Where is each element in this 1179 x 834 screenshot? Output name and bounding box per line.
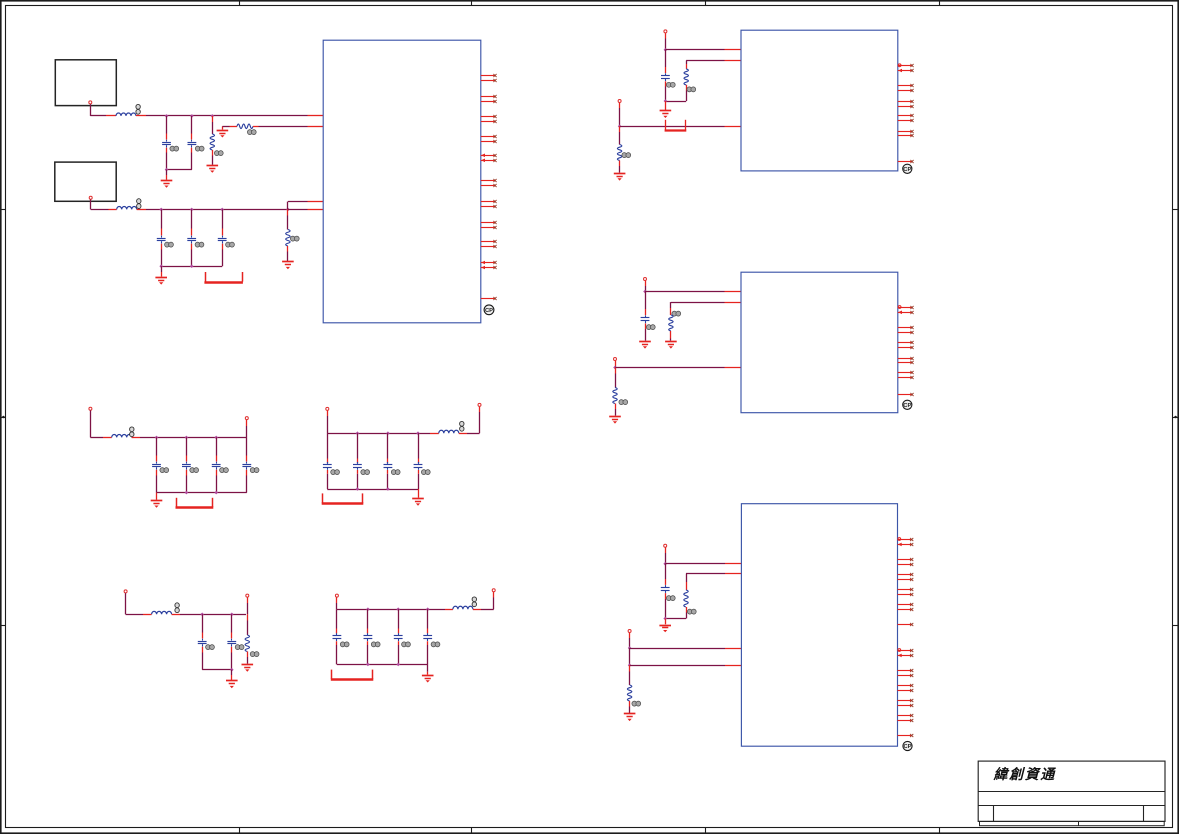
wire R5 down to junction — [665, 91, 686, 102]
port P10 — [492, 589, 495, 592]
U2 right single pin — [898, 160, 914, 163]
resistor R10 — [627, 665, 631, 713]
wire bank-B bottom rail — [327, 489, 418, 491]
wire to U4 pin4 — [630, 665, 725, 667]
svg-text:CP: CP — [903, 403, 911, 409]
inductor L5 — [152, 611, 172, 614]
designator circle U4 — [903, 741, 912, 750]
U2 right pin pair 2 — [898, 84, 914, 92]
wire P7 to L5 — [126, 593, 152, 614]
wire to R2 — [222, 126, 237, 128]
ground — [151, 493, 163, 508]
inductor L6 — [453, 606, 473, 609]
IC U4 — [741, 504, 897, 747]
wire P5 drop — [327, 411, 329, 434]
label C17 — [371, 642, 380, 647]
title block row line 1 — [978, 791, 1165, 793]
capacitor C5 — [218, 209, 227, 266]
wire P3 to L3 — [90, 410, 111, 437]
junction — [366, 663, 370, 667]
port P9 — [335, 594, 338, 597]
U4 right pin pair 7 — [898, 669, 914, 677]
ground — [422, 664, 434, 682]
svg-text:CP: CP — [485, 308, 493, 314]
pin stub U4 pin3 — [725, 648, 741, 650]
ground — [161, 170, 173, 188]
resistor R7 — [669, 315, 673, 341]
wire rail to U3 pin3 — [615, 367, 725, 369]
U3 right pin pair 3 — [898, 341, 914, 349]
pin stub U2 pin3 — [725, 126, 742, 128]
wire L4 to P6 — [459, 407, 480, 434]
pin of J1 — [89, 101, 92, 104]
U2 right pin pair 4 — [898, 114, 914, 122]
pin stub U3 pin3 — [725, 367, 742, 369]
label C8 — [220, 468, 229, 473]
inductor L2 — [117, 206, 137, 209]
label R4 — [250, 652, 259, 657]
capacitor C8 — [212, 437, 221, 492]
U1 right pin pair 6 — [481, 179, 497, 187]
wire P9 drop — [336, 597, 338, 609]
wire jog up to U1 pin3 — [288, 202, 308, 210]
capacitor C21 — [641, 292, 650, 341]
U2 right pin pair 3 — [898, 100, 914, 108]
capacitor C18 — [394, 609, 403, 664]
U4 right pin pair 10 — [898, 714, 914, 722]
U1 right pin pair 7 — [481, 200, 497, 208]
junction — [230, 668, 234, 672]
junction — [200, 613, 204, 617]
title block row line 2 — [978, 805, 1165, 807]
svg-text:緯創資通: 緯創資通 — [993, 766, 1057, 783]
port P13 — [644, 278, 647, 281]
junction — [190, 264, 194, 268]
port P12 — [618, 100, 621, 103]
junction — [356, 431, 360, 435]
designator circle U1 — [484, 305, 494, 315]
wire L6 to P10 — [473, 592, 494, 610]
wire to U3 pin1 — [645, 291, 725, 293]
junction — [663, 617, 667, 621]
label C4 — [195, 242, 204, 247]
junction — [613, 366, 617, 370]
connector J2 — [55, 162, 116, 201]
capacitor C22 — [661, 564, 670, 619]
junction — [185, 436, 189, 440]
title block frame — [978, 761, 1165, 821]
U3 right pin pair 2 — [898, 326, 914, 334]
U1 right pin pair 4 — [481, 135, 497, 143]
capacitor C14 — [198, 614, 207, 669]
label C6 — [160, 468, 169, 473]
capacitor C17 — [364, 609, 373, 664]
label C14 — [206, 645, 215, 650]
junction — [386, 487, 390, 491]
junction — [159, 264, 163, 268]
ground — [226, 670, 238, 689]
capacitor C6 — [152, 437, 161, 492]
capacitor C3 — [157, 209, 166, 266]
capacitor C10 — [323, 433, 332, 489]
wire J2 to L2 — [91, 200, 117, 210]
net-tie bracket — [322, 493, 364, 503]
pin stub to U1 pin4 — [308, 209, 324, 211]
capacitor C20 — [661, 50, 670, 101]
label C3 — [165, 242, 174, 247]
ground — [242, 665, 254, 672]
capacitor C4 — [187, 209, 196, 266]
svg-text:CP: CP — [903, 744, 911, 750]
U4 right pin pair 4 — [898, 588, 914, 596]
port P11 — [664, 30, 667, 33]
label C5 — [226, 242, 235, 247]
U3 right single pin — [898, 393, 914, 396]
wire bank-C bottom rail — [202, 669, 232, 671]
wire cap bottom rail — [161, 266, 222, 268]
port P7 — [124, 590, 127, 593]
capacitor C1 — [162, 116, 171, 170]
U3 right pin pair 4 — [898, 357, 914, 364]
capacitor C2 — [188, 116, 197, 170]
label L4 — [460, 421, 464, 431]
pin stub to U1 pin2 — [308, 126, 324, 128]
net-tie bracket — [176, 498, 214, 508]
wire bank-A rail — [132, 437, 247, 439]
U1 right pin pair 3 — [481, 115, 497, 123]
U1 right single pin — [481, 297, 497, 300]
capacitor C7 — [182, 437, 191, 492]
U4 right pin pair 1 — [898, 538, 914, 547]
label R6 — [622, 153, 631, 158]
junction — [190, 208, 194, 212]
ground — [217, 126, 229, 137]
inductor L1 — [116, 113, 136, 116]
wire P11 drop — [665, 33, 667, 50]
junction — [356, 487, 360, 491]
label C13 — [421, 470, 430, 475]
capacitor C13 — [414, 433, 423, 489]
U4 right single pin B — [898, 734, 914, 737]
U3 right pin pair 5 — [898, 371, 914, 379]
net-tie bracket — [331, 670, 374, 680]
capacitor C12 — [384, 433, 393, 489]
company name text — [993, 766, 1057, 783]
U4 right pin pair 6 — [898, 649, 914, 658]
ground — [639, 342, 651, 349]
junction — [618, 125, 622, 129]
label C20 — [666, 82, 675, 87]
port P4 — [245, 417, 248, 420]
wire P16 drop — [629, 633, 631, 648]
junction — [643, 290, 647, 294]
wire bank-D bottom rail — [337, 664, 428, 666]
ground — [659, 619, 671, 633]
junction — [214, 491, 218, 495]
junction — [185, 491, 189, 495]
resistor R4 — [245, 614, 249, 663]
label R3 — [290, 236, 299, 241]
capacitor C11 — [353, 433, 362, 489]
junction — [663, 562, 667, 566]
capacitor C15 — [227, 614, 236, 669]
wire rail to U1 pin4 — [288, 209, 308, 211]
resistor R5 — [684, 69, 688, 91]
label R9 — [687, 609, 696, 614]
designator circle U3 — [903, 400, 912, 409]
label R2 — [247, 130, 256, 135]
junction — [628, 646, 632, 650]
port P3 — [89, 407, 92, 410]
label L3 — [130, 427, 134, 437]
label C18 — [402, 642, 411, 647]
U1 right pin pair 2 — [481, 95, 497, 103]
svg-text:CP: CP — [903, 167, 911, 173]
wire P16 drop 2 — [629, 648, 631, 665]
resistor R8 — [613, 368, 617, 416]
title block cell divider right — [1143, 806, 1145, 822]
designator circle U2 — [903, 164, 912, 173]
title block bottom strip — [980, 821, 1165, 825]
junction — [214, 436, 218, 440]
junction — [220, 208, 224, 212]
U4 right pin pair 3 — [898, 573, 914, 581]
pin stub U4 pin1 — [725, 563, 741, 565]
label C12 — [391, 470, 400, 475]
junction — [628, 663, 632, 667]
ground — [412, 489, 424, 506]
wire to U4 pin1 — [665, 563, 725, 565]
ground — [660, 101, 672, 118]
wire U4 pin2 to R9 — [686, 574, 741, 591]
IC U3 — [741, 272, 898, 413]
label R1 — [214, 151, 223, 156]
IC U1 — [323, 40, 481, 323]
label C9 — [250, 468, 259, 473]
label L1 — [136, 104, 140, 114]
U4 right pin pair 8 — [898, 684, 914, 692]
label C21 — [646, 325, 655, 330]
label R5 — [687, 87, 696, 92]
inductor L3 — [112, 434, 132, 437]
wire cap bottom rail — [167, 169, 192, 171]
wire to U2 pin1 — [665, 49, 724, 51]
label R8 — [619, 400, 628, 405]
U1 right pin pair 9 — [481, 240, 497, 248]
net-tie bracket on wire — [665, 120, 687, 131]
connector J1 — [55, 60, 116, 106]
U1 right pin pair 5 — [481, 154, 497, 163]
wire bank-D rail — [337, 609, 453, 611]
label R10 — [632, 701, 641, 706]
inductor L4 — [439, 430, 459, 433]
U2 right pin pair 1 — [898, 64, 914, 72]
label L2 — [137, 199, 141, 209]
U4 right pin pair 5 — [898, 603, 914, 611]
resistor R6 — [617, 126, 621, 172]
wire P14 drop — [615, 361, 617, 368]
junction — [396, 663, 400, 667]
wire rail to U2 pin3 — [620, 126, 725, 128]
pin of J2 — [89, 196, 92, 199]
junction — [230, 613, 234, 617]
label C10 — [331, 470, 340, 475]
ground — [665, 342, 677, 349]
net-tie bracket — [204, 272, 243, 283]
port P6 — [478, 403, 481, 406]
U3 right pin pair 1 — [898, 306, 914, 315]
junction — [386, 431, 390, 435]
label C1 — [170, 146, 179, 151]
IC U2 — [741, 30, 898, 171]
capacitor C9 — [242, 437, 251, 492]
pin stub to U1 pin1 — [308, 115, 324, 117]
port P5 — [326, 407, 329, 410]
junction — [426, 607, 430, 611]
wire P13 drop — [645, 281, 647, 292]
junction — [396, 607, 400, 611]
resistor R1 — [210, 116, 214, 165]
junction — [190, 114, 194, 118]
junction — [664, 48, 668, 52]
label C7 — [190, 468, 199, 473]
ground — [155, 266, 167, 284]
wire U2 pin2 to R5 — [686, 60, 741, 69]
ground — [282, 262, 294, 270]
U4 right pin pair 9 — [898, 699, 914, 707]
junction — [155, 436, 159, 440]
ground — [614, 174, 626, 181]
ground — [609, 417, 621, 424]
junction — [416, 431, 420, 435]
junction — [286, 208, 290, 212]
label C19 — [431, 642, 440, 647]
title block cell divider left — [993, 806, 995, 822]
junction — [211, 114, 215, 118]
resistor R3 — [286, 209, 290, 261]
wire P12 drop — [619, 103, 621, 127]
resistor R9 — [665, 590, 688, 619]
label C11 — [361, 470, 370, 475]
wire bank-A bottom rail — [157, 492, 247, 494]
pin stub U4 pin4 — [725, 665, 741, 667]
capacitor C19 — [423, 609, 432, 664]
label C16 — [340, 642, 349, 647]
wire bank-B rail — [327, 433, 439, 435]
junction — [159, 208, 163, 212]
junction — [165, 114, 169, 118]
port P15 — [664, 544, 667, 547]
label L5 — [175, 603, 179, 613]
junction — [664, 99, 668, 103]
wire P15 drop — [665, 548, 667, 564]
wire bank-C rail — [172, 614, 246, 616]
pin stub U2 pin1 — [725, 49, 742, 51]
port P14 — [614, 358, 617, 361]
wire rail VCC2 — [137, 209, 288, 211]
capacitor C16 — [333, 609, 342, 664]
junction — [366, 607, 370, 611]
ground — [624, 714, 636, 722]
wire P4 drop — [246, 420, 248, 438]
label C2 — [195, 146, 204, 151]
wire to U4 pin3 — [630, 648, 725, 650]
ground — [207, 166, 219, 173]
U4 right single pin A — [898, 623, 914, 626]
wire J1 to L1 — [90, 104, 116, 116]
label C22 — [666, 596, 675, 601]
pin stub to U1 pin3 — [308, 201, 324, 203]
pin stub U3 pin1 — [725, 291, 742, 293]
resistor R2 — [237, 124, 253, 128]
U4 right pin pair 2 — [898, 558, 914, 566]
wire R2 to U1 — [253, 126, 308, 128]
U1 right pin pair 10 — [481, 261, 497, 270]
wire net VCC1 rail — [136, 115, 308, 117]
U2 right pin pair 5 — [898, 130, 914, 137]
label C15 — [235, 645, 244, 650]
U1 right pin pair 1 — [481, 74, 497, 82]
label R7 — [672, 311, 681, 316]
wire U3 pin2 to R7 — [671, 302, 742, 315]
wire P8 drop — [247, 597, 249, 614]
port P16 — [628, 630, 631, 633]
port P8 — [246, 594, 249, 597]
junction — [165, 168, 169, 172]
U1 right pin pair 8 — [481, 221, 497, 229]
label L6 — [472, 597, 476, 607]
